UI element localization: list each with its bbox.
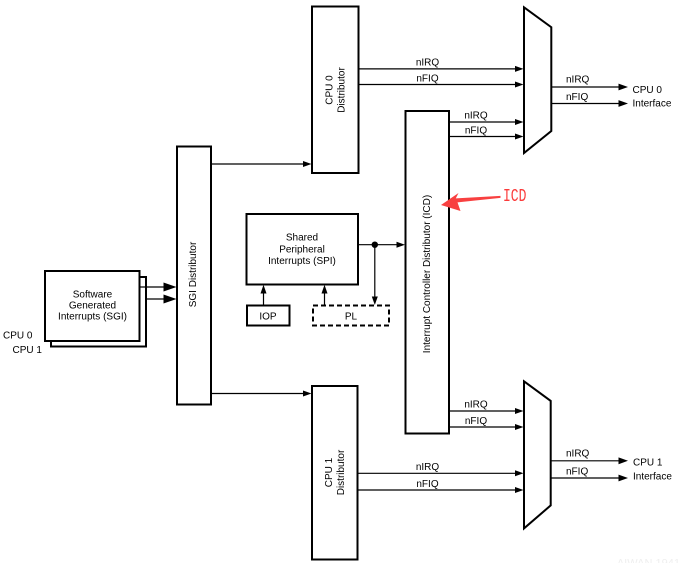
- wire CPU 1 Distributor nFIQ to bottom mux: [358, 479, 524, 493]
- svg-text:SGI Distributor: SGI Distributor: [188, 241, 199, 307]
- block CPU 1 Distributor: [312, 386, 358, 560]
- wire ICD nIRQ to top mux: [449, 111, 524, 125]
- label CPU 0 Interface: [633, 85, 672, 109]
- svg-text:Interrupts (SGI): Interrupts (SGI): [58, 312, 127, 323]
- wire top mux out nIRQ: [551, 75, 628, 91]
- svg-text:CPU 0: CPU 0: [3, 331, 33, 342]
- wire SGI Distributor to CPU 1 Distributor: [211, 391, 312, 397]
- wire bottom mux out nFIQ: [551, 466, 628, 481]
- svg-text:nFIQ: nFIQ: [566, 92, 588, 103]
- block IOP: [247, 306, 290, 326]
- svg-text:Software: Software: [73, 290, 113, 301]
- svg-text:Peripheral: Peripheral: [279, 244, 325, 255]
- wire PL to SPI: [322, 285, 328, 306]
- wire top mux out nFIQ: [551, 92, 628, 107]
- svg-text:CPU 0: CPU 0: [325, 75, 336, 105]
- block CPU 0 Distributor: [312, 7, 359, 174]
- wire CPU 0 Distributor nIRQ to top mux: [359, 58, 524, 72]
- wire ICD nFIQ to top mux: [449, 125, 524, 139]
- svg-text:Interrupts (SPI): Interrupts (SPI): [268, 256, 336, 267]
- svg-text:Shared: Shared: [286, 233, 318, 244]
- wire ICD nFIQ to bottom mux: [449, 416, 524, 430]
- wire SPI to ICD: [358, 242, 405, 248]
- wire SGI Distributor to CPU 0 Distributor: [211, 161, 312, 167]
- block Shared Peripheral Interrupts (SPI): [247, 214, 359, 285]
- svg-text:Interrupt Controller Distribut: Interrupt Controller Distributor (ICD): [422, 195, 433, 353]
- wire ICD nIRQ to bottom mux: [449, 400, 524, 414]
- svg-text:ICD: ICD: [503, 186, 526, 207]
- svg-text:CPU 1: CPU 1: [633, 457, 663, 468]
- svg-text:Generated: Generated: [69, 301, 116, 312]
- wire SGI box to SGI Distributor (top): [140, 283, 177, 292]
- mux top (trapezoid): [524, 7, 551, 153]
- wire bottom mux out nIRQ: [551, 449, 628, 465]
- svg-text:nIRQ: nIRQ: [416, 58, 440, 69]
- svg-text:CPU 0: CPU 0: [633, 85, 663, 96]
- svg-text:nIRQ: nIRQ: [464, 400, 488, 411]
- block SGI back box: [51, 277, 146, 347]
- svg-text:IOP: IOP: [259, 312, 277, 323]
- label CPU 1 Interface: [633, 457, 672, 482]
- svg-text:nFIQ: nFIQ: [416, 479, 438, 490]
- svg-text:nFIQ: nFIQ: [465, 125, 487, 136]
- svg-text:nFIQ: nFIQ: [416, 73, 438, 84]
- svg-text:nIRQ: nIRQ: [566, 75, 590, 86]
- wire IOP to SPI: [261, 285, 267, 306]
- svg-text:nFIQ: nFIQ: [566, 466, 588, 477]
- svg-text:Distributor: Distributor: [337, 67, 348, 113]
- svg-text:nFIQ: nFIQ: [465, 416, 487, 427]
- svg-text:nIRQ: nIRQ: [464, 111, 488, 122]
- svg-text:CPU 1: CPU 1: [324, 457, 335, 487]
- svg-text:Distributor: Distributor: [336, 449, 347, 495]
- svg-text:AIWAN 1941: AIWAN 1941: [617, 558, 680, 563]
- block SGI Distributor: [177, 147, 211, 405]
- block Software Generated Interrupts (SGI): [45, 271, 140, 341]
- svg-text:PL: PL: [345, 312, 358, 323]
- svg-text:nIRQ: nIRQ: [566, 449, 590, 460]
- node junction on SPI-ICD wire: [372, 242, 378, 248]
- annotation red arrow: [441, 193, 501, 211]
- wire SGI box to SGI Distributor (bottom): [146, 295, 177, 304]
- wire junction to PL: [372, 245, 378, 305]
- block Interrupt Controller Distributor (ICD): [406, 111, 450, 434]
- mux bottom (trapezoid): [524, 381, 551, 528]
- wire CPU 0 Distributor nFIQ to top mux: [359, 73, 524, 87]
- block PL (dashed): [313, 306, 389, 326]
- svg-text:Interface: Interface: [633, 472, 672, 483]
- svg-text:nIRQ: nIRQ: [416, 462, 440, 473]
- svg-text:Interface: Interface: [633, 98, 672, 109]
- svg-text:CPU 1: CPU 1: [13, 345, 43, 356]
- wire CPU 1 Distributor nIRQ to bottom mux: [358, 462, 524, 476]
